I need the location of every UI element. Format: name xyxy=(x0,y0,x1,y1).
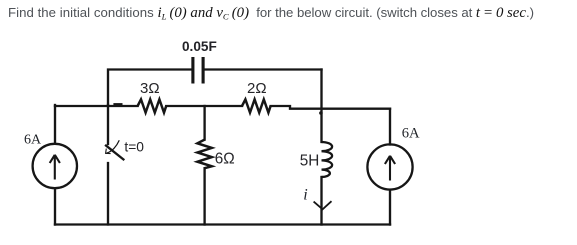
svg-text:5H: 5H xyxy=(300,153,320,170)
current arrow i on inductor branch xyxy=(314,201,332,209)
wire: inductor branch upper xyxy=(320,70,322,143)
switch S1 blade xyxy=(106,146,123,160)
wire: switch branch upper xyxy=(107,105,109,144)
svg-text:t=0: t=0 xyxy=(124,140,144,155)
current source I2 circle xyxy=(367,144,412,189)
current source I1 circle xyxy=(33,144,77,188)
wire: overdraw dash near switch junction xyxy=(115,103,122,105)
wire: inductor branch lower xyxy=(320,177,322,225)
inductor L1 coil xyxy=(322,142,333,177)
resistor R1 3ohm xyxy=(138,99,167,112)
wire: left source branch lower xyxy=(54,189,56,225)
svg-text:3Ω: 3Ω xyxy=(140,80,160,97)
resistor R3 6ohm xyxy=(197,140,211,169)
wire: 6ohm branch lower lead xyxy=(203,168,205,224)
current source I1 arrow xyxy=(50,155,60,180)
switch S1 closing arc xyxy=(107,141,119,153)
switch S1 arc arrowhead xyxy=(106,149,111,154)
junction dot xyxy=(319,111,323,115)
capacitor C1 plates xyxy=(193,57,203,84)
wire: bottom bus xyxy=(55,223,390,225)
svg-text:6A: 6A xyxy=(402,125,420,141)
svg-text:i: i xyxy=(303,186,307,203)
resistor R2 2ohm xyxy=(242,99,271,112)
wire: right source branch lower xyxy=(389,190,391,225)
wire: middle bus between R1 and R2 xyxy=(166,105,242,107)
svg-text:0.05F: 0.05F xyxy=(182,39,217,54)
title text xyxy=(8,5,534,22)
wire: right source branch upper xyxy=(389,109,391,145)
svg-text:2Ω: 2Ω xyxy=(247,80,267,97)
current source I2 arrow xyxy=(385,156,395,181)
wire: 6ohm branch upper lead xyxy=(203,106,205,140)
wire: switch branch lower xyxy=(107,163,109,225)
svg-text:6Ω: 6Ω xyxy=(215,151,235,168)
wire: top capacitor branch right segment xyxy=(205,68,322,70)
wire: middle bus left segment xyxy=(55,105,138,107)
wire: left source branch upper xyxy=(54,105,56,144)
wire: top capacitor branch left segment xyxy=(108,70,191,106)
svg-text:6A: 6A xyxy=(24,133,42,148)
wire: middle bus right of R2 with jog xyxy=(271,106,390,109)
